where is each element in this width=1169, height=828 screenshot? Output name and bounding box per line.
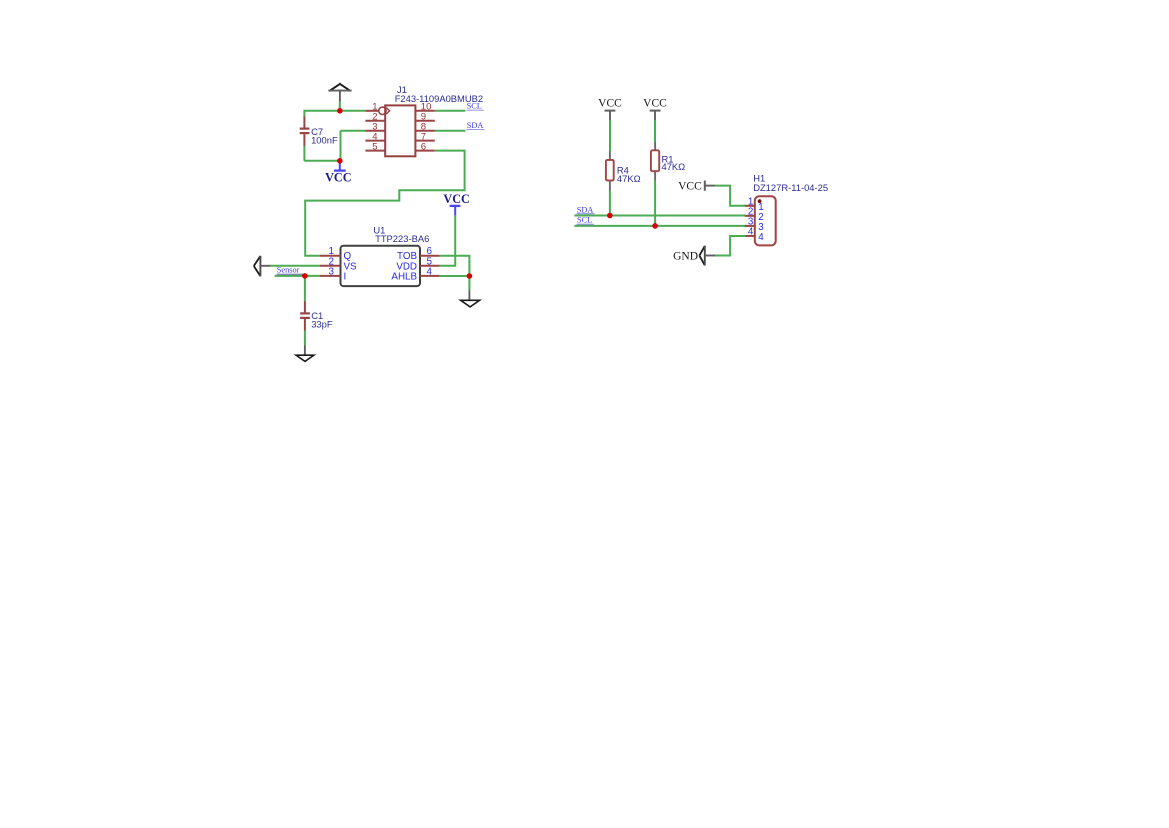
power flag VCC (H1 pin1)	[678, 180, 715, 192]
power flag VCC (above R1)	[643, 98, 667, 120]
svg-text:VCC: VCC	[325, 171, 351, 185]
power flag VCC (above U1)	[443, 192, 469, 216]
wire (to U1 VS)	[270, 265, 320, 267]
svg-text:6: 6	[421, 142, 426, 153]
resistor R1	[651, 142, 685, 181]
net label Sensor	[277, 266, 304, 275]
wire	[468, 276, 470, 291]
svg-text:SCL: SCL	[577, 216, 592, 225]
wire	[339, 101, 341, 111]
svg-text:Sensor: Sensor	[277, 266, 300, 275]
svg-text:100nF: 100nF	[311, 135, 338, 146]
svg-text:47KΩ: 47KΩ	[662, 161, 686, 172]
ground (below C1)	[296, 345, 314, 361]
port arrow GND	[673, 246, 715, 266]
header H1	[745, 173, 828, 246]
svg-text:GND: GND	[673, 251, 698, 263]
svg-text:VCC: VCC	[678, 180, 702, 192]
svg-text:VCC: VCC	[598, 98, 622, 110]
svg-text:AHLB: AHLB	[391, 271, 417, 282]
capacitor C1	[300, 301, 333, 331]
svg-text:I: I	[344, 271, 347, 282]
junction	[302, 273, 308, 279]
wire	[341, 130, 366, 132]
net label SDA	[466, 121, 484, 130]
wire (VCC to U1 VDD)	[440, 215, 456, 265]
wire (Sensor to U1 I)	[275, 275, 320, 277]
net label SDA	[577, 205, 595, 214]
wire (J1 pin6 to U1 pin1)	[305, 151, 464, 256]
ground arrow (top, above J1 pin1 net)	[329, 84, 350, 101]
junction	[337, 108, 343, 114]
wire	[654, 120, 656, 142]
svg-text:SCL: SCL	[467, 102, 482, 111]
wire	[304, 331, 306, 346]
wire	[304, 110, 365, 112]
junction	[337, 158, 343, 164]
ground (right of U1)	[461, 290, 480, 307]
svg-text:SDA: SDA	[467, 121, 484, 130]
svg-text:4: 4	[748, 227, 754, 238]
net label SCL	[577, 216, 594, 225]
capacitor C7	[300, 117, 338, 147]
svg-text:DZ127R-11-04-25: DZ127R-11-04-25	[753, 182, 828, 193]
wire SDA bus	[574, 215, 745, 217]
svg-text:VCC: VCC	[643, 98, 667, 110]
wire SDA	[435, 130, 466, 132]
net label SCL	[466, 102, 483, 111]
wire SCL	[435, 110, 466, 112]
svg-text:TTP223-BA6: TTP223-BA6	[375, 233, 429, 244]
junction	[467, 273, 473, 279]
power flag VCC (above R4)	[598, 98, 622, 120]
IC U1	[320, 225, 440, 287]
wire	[654, 181, 656, 226]
power flag VCC (below C7)	[325, 161, 351, 185]
svg-text:4: 4	[758, 232, 764, 243]
wire (VCC to H1 pin1)	[715, 186, 746, 206]
wire	[303, 110, 305, 117]
wire	[609, 120, 611, 152]
wire	[609, 190, 611, 215]
wire (U1 AHLB)	[440, 275, 470, 277]
svg-text:5: 5	[372, 142, 377, 153]
wire (GND to H1 pin4)	[715, 236, 746, 256]
wire	[304, 160, 339, 162]
connector J1	[365, 84, 483, 156]
svg-text:3: 3	[329, 266, 335, 277]
svg-text:4: 4	[427, 266, 433, 277]
wire (U1 TOB)	[440, 256, 470, 276]
junction	[652, 223, 658, 229]
junction	[607, 213, 613, 219]
port arrow (Sensor input)	[254, 256, 271, 276]
svg-text:SDA: SDA	[577, 205, 594, 214]
resistor R4	[606, 151, 641, 190]
svg-text:33pF: 33pF	[311, 319, 333, 330]
wire SCL bus	[574, 225, 745, 227]
wire	[304, 276, 306, 302]
svg-text:VCC: VCC	[443, 192, 469, 206]
wire	[303, 146, 305, 161]
wire	[340, 131, 342, 161]
svg-text:47KΩ: 47KΩ	[617, 173, 641, 184]
